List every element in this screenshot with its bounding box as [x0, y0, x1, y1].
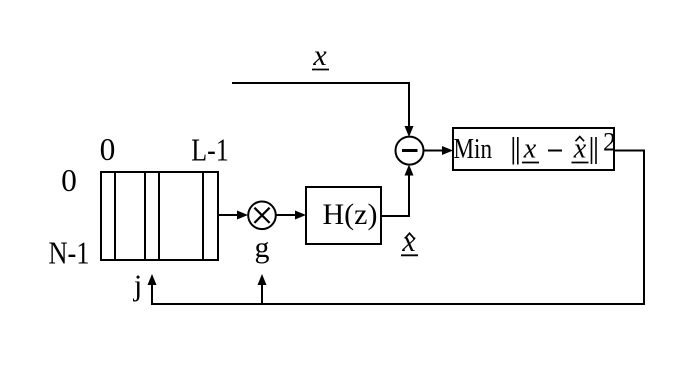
svg-text:Min: Min — [454, 134, 493, 165]
codebook column line 1 — [114, 172, 116, 260]
wire feedback from Min box — [152, 151, 644, 305]
label x-hat — [401, 225, 418, 258]
svg-text:L-1: L-1 — [191, 133, 229, 168]
svg-text:0: 0 — [100, 132, 116, 167]
wire top input x — [232, 83, 409, 127]
svg-text:2: 2 — [603, 128, 616, 157]
codebook column line 2 — [144, 172, 146, 260]
svg-text:x: x — [401, 225, 416, 258]
svg-text:j: j — [133, 269, 142, 302]
wire codebook to multiplier — [218, 214, 239, 216]
codebook box — [101, 172, 218, 260]
svg-text:g: g — [255, 231, 270, 264]
svg-text:H(z): H(z) — [323, 198, 378, 231]
adder circle with minus — [396, 137, 424, 165]
wire adder to Min box — [423, 150, 444, 152]
svg-text:x: x — [523, 134, 537, 165]
Min box formula text — [454, 128, 617, 166]
codebook column line 3 — [158, 172, 160, 260]
svg-text:x: x — [312, 39, 327, 72]
multiplier circle — [248, 202, 276, 230]
Min box — [453, 128, 614, 170]
svg-text:x: x — [573, 134, 587, 165]
svg-text:0: 0 — [61, 163, 77, 198]
label x input — [312, 39, 329, 72]
svg-text:N-1: N-1 — [49, 236, 90, 271]
wire H(z) to adder — [381, 174, 409, 216]
codebook column line 4 — [202, 172, 204, 260]
wire feedback branch to gain — [261, 284, 263, 304]
filter box H(z) — [306, 187, 381, 244]
wire multiplier to H(z) — [276, 214, 298, 216]
